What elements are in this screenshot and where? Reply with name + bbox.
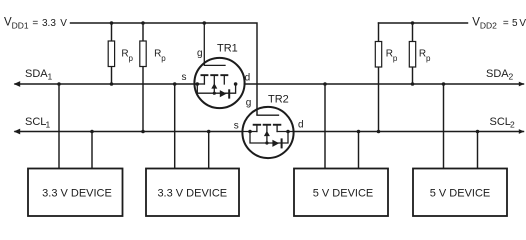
- svg-text:5: 5: [512, 18, 518, 29]
- svg-text:d: d: [245, 73, 251, 84]
- svg-text:SCL: SCL: [25, 116, 46, 128]
- svg-text:TR2: TR2: [268, 94, 289, 106]
- svg-text:V: V: [519, 18, 526, 29]
- svg-text:SDA: SDA: [486, 68, 509, 80]
- svg-text:p: p: [161, 54, 166, 63]
- svg-text:1: 1: [46, 120, 51, 130]
- svg-text:g: g: [246, 97, 252, 108]
- svg-text:2: 2: [510, 120, 515, 130]
- svg-text:TR1: TR1: [217, 42, 238, 54]
- svg-text:2: 2: [509, 72, 514, 82]
- svg-text:d: d: [298, 120, 304, 131]
- svg-text:SDA: SDA: [25, 68, 48, 80]
- svg-text:p: p: [129, 54, 134, 63]
- svg-text:DD1: DD1: [12, 21, 29, 31]
- svg-text:g: g: [197, 48, 203, 59]
- svg-text:=: =: [503, 18, 509, 29]
- svg-text:p: p: [426, 54, 431, 63]
- svg-text:s: s: [182, 72, 187, 83]
- svg-text:3.3: 3.3: [42, 18, 56, 29]
- svg-text:p: p: [393, 54, 398, 63]
- svg-text:3.3 V DEVICE: 3.3 V DEVICE: [157, 187, 227, 199]
- svg-text:s: s: [234, 120, 239, 131]
- svg-text:1: 1: [48, 72, 53, 82]
- svg-text:3.3 V DEVICE: 3.3 V DEVICE: [42, 187, 112, 199]
- svg-text:5 V DEVICE: 5 V DEVICE: [430, 187, 491, 199]
- svg-text:5 V DEVICE: 5 V DEVICE: [313, 187, 374, 199]
- svg-text:DD2: DD2: [480, 21, 497, 31]
- svg-text:V: V: [60, 18, 67, 29]
- svg-text:=: =: [32, 18, 38, 29]
- svg-text:SCL: SCL: [490, 116, 511, 128]
